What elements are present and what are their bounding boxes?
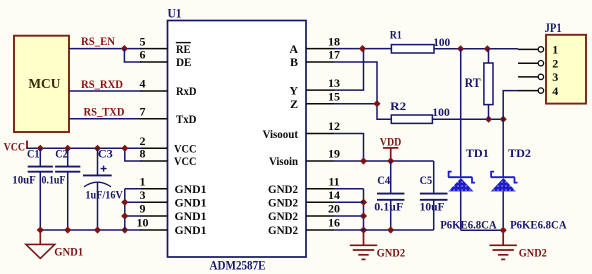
op-amp U1 ADM2587E body <box>168 21 307 258</box>
wire pin 9 horizontal <box>125 215 141 217</box>
wire Visoout (pin 12) to Visoin (pin 19) <box>334 134 364 162</box>
U1 pin 15 stub <box>306 103 334 105</box>
JP1 pin 1 stub <box>518 48 538 50</box>
svg-text:P6KE6.8CA: P6KE6.8CA <box>440 217 497 231</box>
wire RS_RXD (MCU to U1 pin 4) <box>69 90 141 92</box>
junction pin 14 <box>360 199 367 206</box>
wire RT bottom lead <box>488 105 490 120</box>
wire RT top lead <box>488 49 490 63</box>
ground GND2 symbol (under U1) <box>350 230 377 259</box>
svg-text:RS_TXD: RS_TXD <box>84 105 125 119</box>
wire GND2 pin group vertical (pins 11,14,20,16) <box>363 189 365 230</box>
svg-text:4: 4 <box>140 77 146 91</box>
junction VCC/C1 <box>37 145 44 152</box>
C3 plus sign <box>101 166 107 172</box>
JP1 pin 4 circle <box>538 88 543 93</box>
svg-text:6: 6 <box>140 48 146 62</box>
svg-text:17: 17 <box>328 48 340 62</box>
svg-text:10uF: 10uF <box>12 174 36 186</box>
wire A (pin 18) to R1 <box>334 48 391 50</box>
svg-text:1: 1 <box>552 43 558 57</box>
svg-text:7: 7 <box>140 105 146 119</box>
U1 pin 5 stub <box>140 48 168 50</box>
junction RS_EN/DE <box>121 45 128 52</box>
U1 pin 12 stub <box>306 133 334 135</box>
wire pin 1 horizontal <box>125 188 141 190</box>
svg-text:Z: Z <box>290 97 298 111</box>
svg-text:5: 5 <box>140 34 146 48</box>
junction GND2 rail/TD2 <box>500 227 507 234</box>
U1 pin 3 stub <box>140 201 168 203</box>
svg-text:A: A <box>289 42 298 56</box>
TVS diode TD2 <box>491 172 518 183</box>
svg-text:9: 9 <box>140 202 146 216</box>
wire RS_EN (MCU to U1 pin 5) <box>69 48 141 50</box>
resistor R1 <box>391 45 434 53</box>
svg-text:0.1uF: 0.1uF <box>374 201 403 213</box>
junction B/Z <box>373 100 380 107</box>
wire TD2 to GND2 rail <box>502 191 504 230</box>
U1 pin 19 stub <box>306 160 334 162</box>
svg-text:11: 11 <box>328 174 339 188</box>
svg-text:GND2: GND2 <box>268 195 298 209</box>
svg-text:100: 100 <box>433 37 450 49</box>
svg-text:GND1: GND1 <box>54 245 83 259</box>
junction TD2/JP1 pin4 <box>500 116 507 123</box>
wire VDD rail (pin 19 row) <box>334 160 434 162</box>
svg-text:4: 4 <box>552 84 558 98</box>
wire B (pin 17) down to Z <box>334 62 391 119</box>
capacitor C5 <box>433 161 435 194</box>
junction pin 9 <box>121 212 128 219</box>
svg-text:DE: DE <box>176 55 192 69</box>
connector JP1 body <box>546 35 586 104</box>
wire Z (pin 15) <box>334 103 377 105</box>
junction VDD/C4 <box>387 157 394 164</box>
resistor RT (termination) <box>484 63 493 105</box>
junction GND1 rail/C1 <box>37 226 44 233</box>
ground GND2 symbol (right) <box>490 230 517 259</box>
svg-text:GND2: GND2 <box>268 209 298 223</box>
svg-text:0.1uF: 0.1uF <box>42 174 66 186</box>
svg-text:12: 12 <box>328 119 340 133</box>
wire pin 3 horizontal <box>125 201 141 203</box>
wire pin 14 horizontal <box>334 201 364 203</box>
U1 pin 7 stub <box>140 118 168 120</box>
junction RT bottom <box>485 116 492 123</box>
svg-text:R2: R2 <box>390 101 406 113</box>
U1 pin 17 stub <box>306 61 334 63</box>
U1 pin 13 stub <box>306 89 334 91</box>
svg-text:P6KE6.8CA: P6KE6.8CA <box>510 217 567 231</box>
wire R1 to JP1 pin 1 <box>434 48 518 50</box>
U1 pin 10 stub <box>140 229 168 231</box>
capacitor C2 <box>67 148 69 166</box>
svg-text:GND2: GND2 <box>519 245 547 259</box>
wire TD2 vertical (from pin4 node down to TVS) <box>502 119 504 177</box>
svg-text:GND1: GND1 <box>175 209 207 223</box>
wire GND1 pin group vertical (pins 1,3,9,10) <box>124 189 126 230</box>
svg-text:100: 100 <box>432 107 450 119</box>
capacitor C3 (polarized) <box>97 148 99 175</box>
U1 pin 2 stub <box>140 147 168 149</box>
junction pin 20 <box>360 212 367 219</box>
power port VCC <box>26 141 28 150</box>
power port VDD <box>383 148 398 161</box>
JP1 pin 4 stub <box>518 90 538 92</box>
svg-text:GND1: GND1 <box>175 195 207 209</box>
U1 pin 20 stub <box>306 215 334 217</box>
junction GND1 rail/C2 <box>64 226 71 233</box>
JP1 pin 3 stub <box>518 76 538 78</box>
junction VCC/pin8 <box>121 145 128 152</box>
TVS diode TD1 <box>448 172 475 183</box>
svg-text:TD1: TD1 <box>466 146 489 160</box>
wire TD1 to GND2 rail <box>460 191 462 230</box>
svg-text:TD2: TD2 <box>508 146 531 160</box>
wire pin 20 horizontal <box>334 215 364 217</box>
wire Y (pin 13) join to A <box>334 49 364 91</box>
svg-text:19: 19 <box>328 147 340 161</box>
svg-text:1: 1 <box>140 174 146 188</box>
wire JP1 pin 4 down to TD2 node <box>503 91 518 120</box>
U1 pin 6 stub <box>140 61 168 63</box>
junction GND2/C4 <box>387 226 394 233</box>
svg-text:2: 2 <box>552 56 558 70</box>
JP1 pin 3 circle <box>538 74 543 79</box>
U1 pin 11 stub <box>306 188 334 190</box>
wire pin 16 horizontal <box>334 229 364 231</box>
svg-text:VCC: VCC <box>4 142 26 154</box>
wire GND2 rail to C4/C5 <box>364 229 434 231</box>
svg-text:RT: RT <box>465 76 482 90</box>
svg-text:10uF: 10uF <box>420 201 445 213</box>
svg-text:GND2: GND2 <box>268 223 298 237</box>
junction RT top tap <box>484 45 491 52</box>
svg-text:GND2: GND2 <box>268 182 298 196</box>
wire TD1 vertical (A line down to TVS) <box>460 49 462 177</box>
svg-text:VCC: VCC <box>174 154 197 168</box>
svg-text:15: 15 <box>328 89 340 103</box>
U1 pin 8 stub <box>140 160 168 162</box>
junction A/Y <box>359 45 366 52</box>
U1 pin 9 stub <box>140 215 168 217</box>
svg-text:13: 13 <box>328 76 340 90</box>
U1 pin 1 stub <box>140 188 168 190</box>
svg-text:16: 16 <box>328 216 340 230</box>
svg-text:B: B <box>290 55 298 69</box>
junction TD1 tap <box>457 45 464 52</box>
svg-text:18: 18 <box>328 34 340 48</box>
junction pin 16 <box>360 226 367 233</box>
svg-text:R1: R1 <box>390 29 402 41</box>
junction GND1 rail/C3 <box>94 226 101 233</box>
svg-text:Visoout: Visoout <box>263 127 299 141</box>
wire GND2 rail (right, TD1 to TD2) <box>461 229 504 231</box>
svg-text:U1: U1 <box>168 6 182 21</box>
wire VCC rail branch to pin 8 <box>125 148 141 161</box>
junction Visoin node <box>360 157 367 164</box>
svg-text:C1: C1 <box>27 148 40 160</box>
JP1 pin 2 circle <box>538 61 543 66</box>
svg-text:14: 14 <box>328 188 340 202</box>
junction pin 3 <box>121 199 128 206</box>
svg-text:C5: C5 <box>420 175 433 187</box>
svg-text:RE: RE <box>176 42 191 56</box>
ground GND1 symbol <box>26 230 55 258</box>
wire GND1 rail (pin 10 row) <box>40 229 141 231</box>
resistor R2 <box>391 115 432 123</box>
junction VCC/C3 <box>94 145 101 152</box>
svg-text:C2: C2 <box>55 148 68 160</box>
svg-text:VDD: VDD <box>380 134 402 148</box>
U1 pin 16 stub <box>306 229 334 231</box>
wire RS_EN branch to pin 6 <box>124 49 141 62</box>
junction VCC/C2 <box>64 145 71 152</box>
U1 pin 18 stub <box>306 48 334 50</box>
svg-text:RxD: RxD <box>176 84 197 98</box>
svg-text:Visoin: Visoin <box>269 154 298 168</box>
svg-text:Y: Y <box>289 83 298 97</box>
svg-text:GND1: GND1 <box>175 182 207 196</box>
junction GND1 rail/pin group <box>121 226 128 233</box>
wire R2 to TD2/JP1 pin 4 node <box>432 118 503 120</box>
MCU block <box>14 36 69 132</box>
svg-text:1uF/16V: 1uF/16V <box>85 190 123 202</box>
U1 pin 4 stub <box>140 90 168 92</box>
wire pin 11 horizontal <box>334 188 364 190</box>
svg-text:GND2: GND2 <box>377 245 406 259</box>
svg-text:RS_RXD: RS_RXD <box>81 77 123 91</box>
wire RS_TXD (MCU to U1 pin 7) <box>69 118 141 120</box>
JP1 pin 2 stub <box>518 62 538 64</box>
capacitor C1 <box>39 148 41 166</box>
svg-text:MCU: MCU <box>28 77 60 92</box>
U1 pin 14 stub <box>306 201 334 203</box>
wire VCC rail to U1 pin 2 <box>27 147 141 149</box>
svg-text:3: 3 <box>140 188 146 202</box>
svg-text:C3: C3 <box>98 148 113 160</box>
svg-text:GND1: GND1 <box>175 223 207 237</box>
svg-text:C4: C4 <box>377 175 390 187</box>
svg-text:20: 20 <box>328 202 340 216</box>
capacitor C4 <box>390 161 392 194</box>
JP1 pin 1 circle <box>538 47 543 52</box>
svg-text:JP1: JP1 <box>545 21 562 35</box>
svg-text:TxD: TxD <box>176 112 197 126</box>
svg-text:RS_EN: RS_EN <box>81 34 115 48</box>
svg-text:10: 10 <box>137 216 149 230</box>
svg-text:3: 3 <box>552 70 558 84</box>
svg-text:ADM2587E: ADM2587E <box>210 257 266 272</box>
